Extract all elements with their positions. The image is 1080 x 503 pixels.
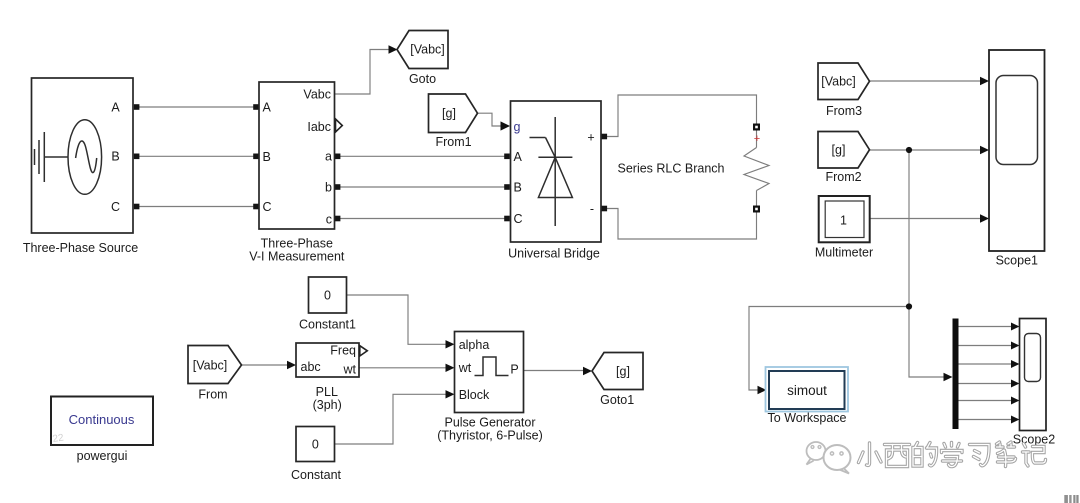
svg-text:simout: simout xyxy=(787,383,827,398)
svg-text:0: 0 xyxy=(324,288,331,302)
svg-text:Multimeter: Multimeter xyxy=(815,246,873,260)
svg-text:[Vabc]: [Vabc] xyxy=(193,358,228,372)
svg-text:wt: wt xyxy=(343,363,357,377)
svg-text:To Workspace: To Workspace xyxy=(768,411,847,425)
svg-text:Universal Bridge: Universal Bridge xyxy=(508,246,600,260)
svg-text:A: A xyxy=(263,101,272,115)
svg-text:c: c xyxy=(326,212,332,226)
svg-text:PLL: PLL xyxy=(316,385,338,399)
svg-text:Goto1: Goto1 xyxy=(600,393,634,407)
svg-text:Goto: Goto xyxy=(409,72,436,86)
svg-text:A: A xyxy=(514,150,523,164)
svg-text:Scope1: Scope1 xyxy=(996,253,1038,267)
svg-text:Block: Block xyxy=(459,388,490,402)
svg-text:+: + xyxy=(587,130,594,144)
svg-text:powergui: powergui xyxy=(77,449,128,463)
svg-text:Freq: Freq xyxy=(330,343,356,357)
svg-text:0: 0 xyxy=(312,438,319,452)
svg-text:C: C xyxy=(514,212,523,226)
svg-text:Iabc: Iabc xyxy=(307,120,331,134)
svg-text:B: B xyxy=(111,150,119,164)
svg-text:Three-Phase Source: Three-Phase Source xyxy=(23,241,138,255)
svg-text:wt: wt xyxy=(458,361,472,375)
svg-text:From: From xyxy=(198,387,227,401)
svg-text:B: B xyxy=(514,180,522,194)
svg-text:[g]: [g] xyxy=(442,107,456,121)
svg-text:From2: From2 xyxy=(825,170,861,184)
svg-text:C: C xyxy=(263,200,272,214)
svg-text:P: P xyxy=(510,363,518,377)
svg-text:C: C xyxy=(111,200,120,214)
svg-text:(3ph): (3ph) xyxy=(313,398,342,412)
svg-text:[Vabc]: [Vabc] xyxy=(410,43,445,57)
svg-text:b: b xyxy=(325,180,332,194)
svg-text:From3: From3 xyxy=(826,104,862,118)
svg-text:V-I Measurement: V-I Measurement xyxy=(249,250,345,264)
svg-text:[g]: [g] xyxy=(832,143,846,157)
svg-text:A: A xyxy=(111,100,120,114)
svg-text:Continuous: Continuous xyxy=(69,412,135,427)
svg-text:alpha: alpha xyxy=(459,338,490,352)
svg-text:22: 22 xyxy=(52,432,65,445)
svg-text:Vabc: Vabc xyxy=(303,87,331,101)
svg-text:[Vabc]: [Vabc] xyxy=(821,75,856,89)
svg-text:Three-Phase: Three-Phase xyxy=(261,237,333,251)
svg-text:abc: abc xyxy=(301,360,321,374)
svg-text:1: 1 xyxy=(840,213,847,227)
svg-text:Constant: Constant xyxy=(291,468,342,482)
svg-text:Scope2: Scope2 xyxy=(1013,432,1055,446)
svg-text:Pulse Generator: Pulse Generator xyxy=(444,415,535,429)
svg-text:-: - xyxy=(590,202,594,216)
svg-text:B: B xyxy=(263,150,271,164)
svg-text:+: + xyxy=(754,133,760,145)
svg-text:From1: From1 xyxy=(435,135,471,149)
svg-text:Series RLC Branch: Series RLC Branch xyxy=(618,161,725,175)
svg-text:a: a xyxy=(325,150,332,164)
svg-text:(Thyristor, 6-Pulse): (Thyristor, 6-Pulse) xyxy=(437,429,543,443)
svg-text:Constant1: Constant1 xyxy=(299,317,356,331)
svg-text:g: g xyxy=(514,120,521,134)
svg-text:[g]: [g] xyxy=(616,364,630,378)
